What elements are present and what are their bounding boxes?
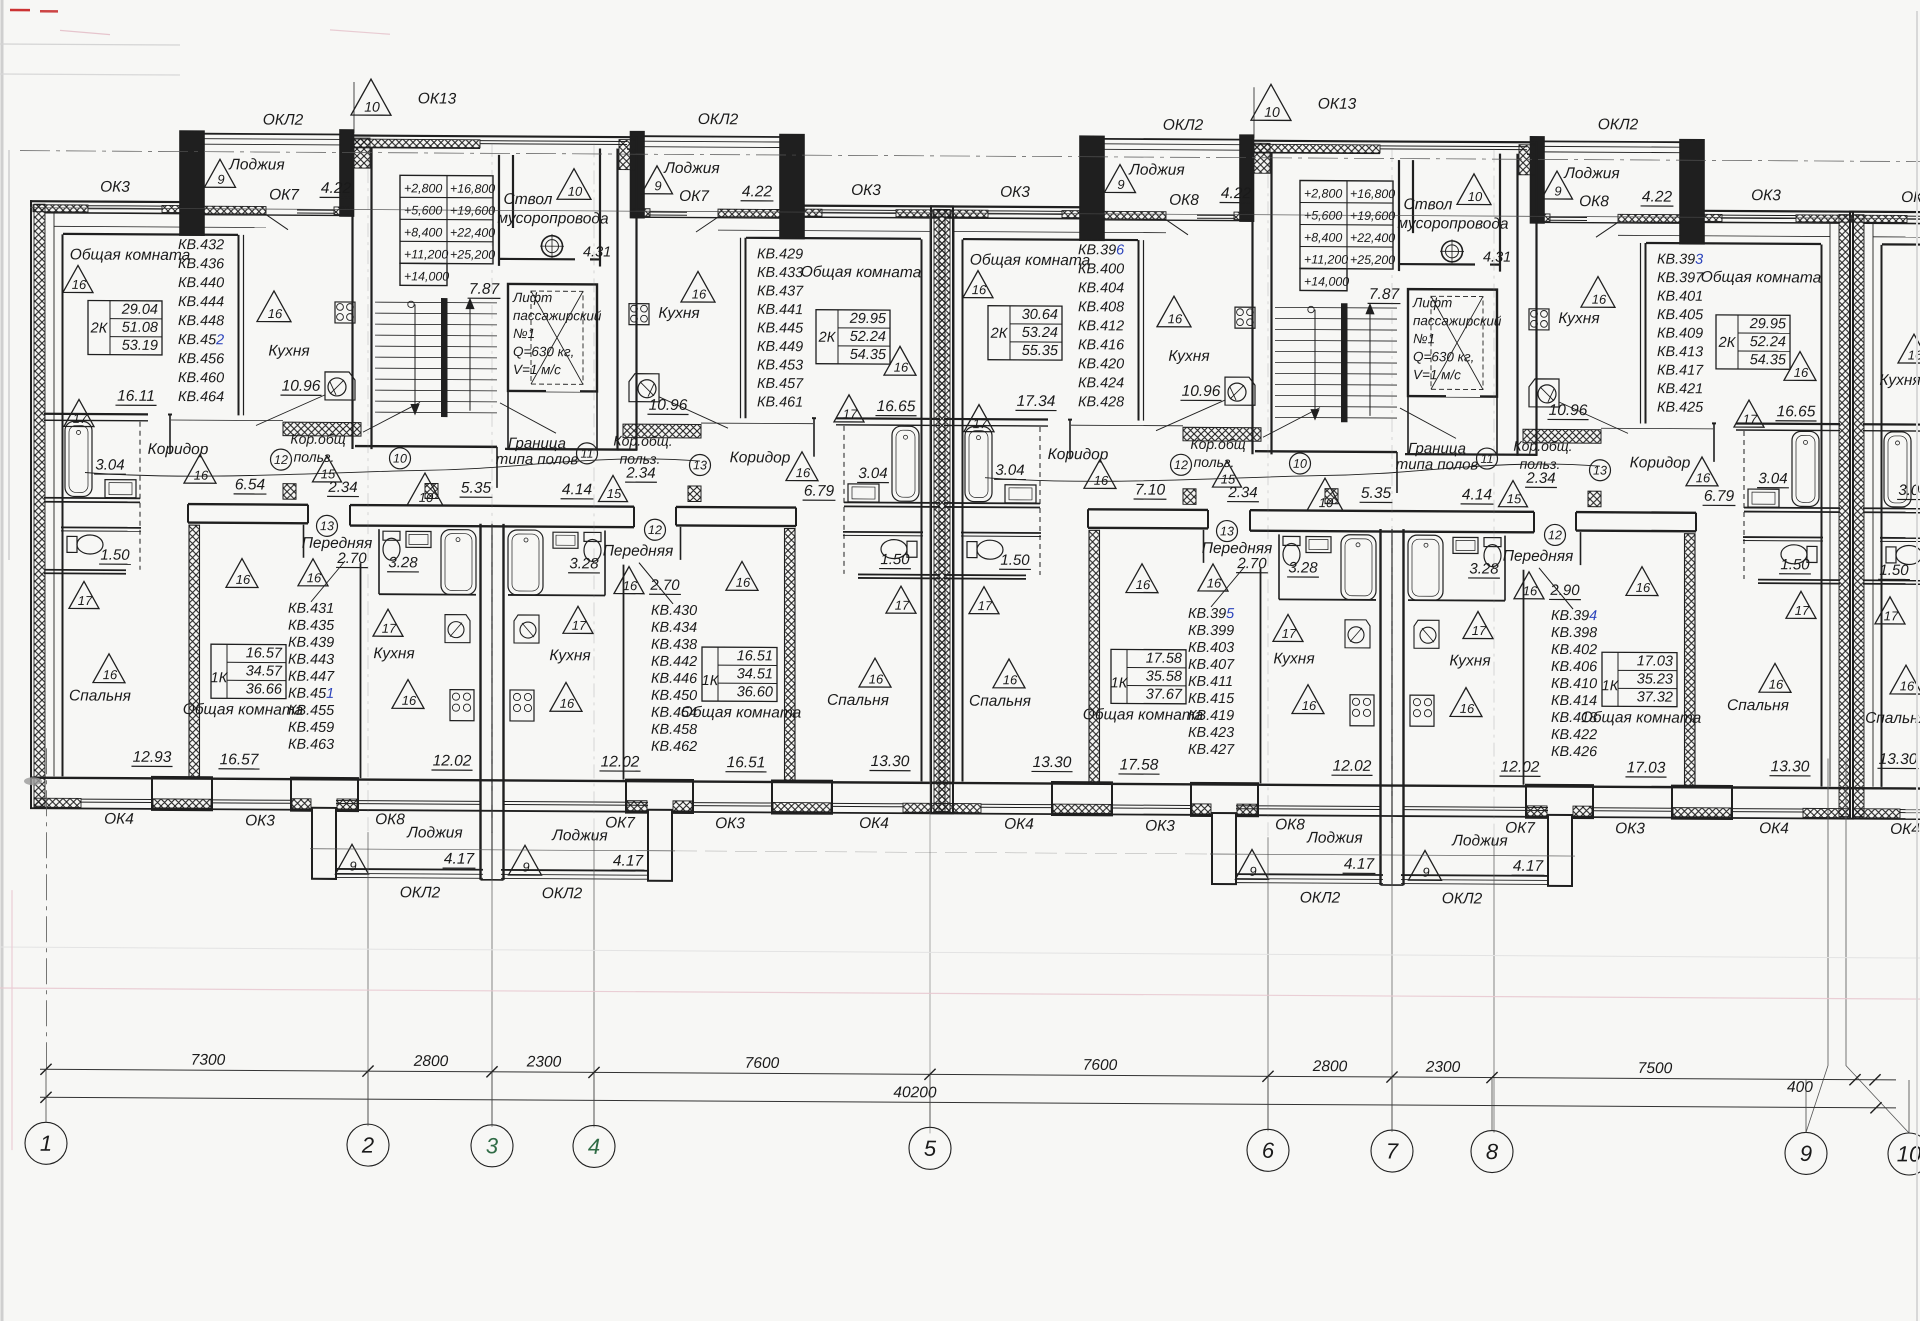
svg-text:6.79: 6.79 — [804, 483, 835, 500]
svg-text:КВ.402: КВ.402 — [1551, 642, 1597, 658]
svg-text:2.34: 2.34 — [625, 465, 655, 482]
svg-text:Спальня: Спальня — [969, 693, 1031, 710]
building structure: wing 2 — [930, 133, 1854, 887]
svg-text:КВ.446: КВ.446 — [651, 671, 697, 687]
svg-text:+19,600: +19,600 — [450, 204, 495, 218]
svg-text:КВ.425: КВ.425 — [1657, 400, 1704, 416]
svg-text:37.32: 37.32 — [1637, 689, 1673, 705]
svg-text:5.35: 5.35 — [461, 480, 492, 497]
svg-text:КВ.457: КВ.457 — [757, 376, 804, 392]
svg-text:Ствол: Ствол — [1404, 196, 1453, 213]
svg-text:40200: 40200 — [893, 1084, 936, 1101]
svg-text:16: 16 — [1636, 580, 1651, 595]
svg-text:17: 17 — [572, 618, 587, 633]
svg-text:16: 16 — [1696, 470, 1711, 485]
svg-text:3.28: 3.28 — [1288, 559, 1318, 576]
svg-text:3.28: 3.28 — [1469, 560, 1499, 577]
svg-text:Кухня: Кухня — [268, 343, 309, 360]
svg-text:16: 16 — [623, 578, 638, 593]
svg-text:10: 10 — [364, 99, 380, 115]
svg-text:12.02: 12.02 — [601, 753, 640, 770]
svg-text:35.58: 35.58 — [1146, 669, 1182, 685]
svg-text:15: 15 — [1507, 491, 1522, 506]
svg-text:16: 16 — [1592, 292, 1607, 307]
svg-text:Общая комната: Общая комната — [1083, 706, 1204, 724]
svg-text:КВ.449: КВ.449 — [757, 339, 803, 355]
svg-text:Передняя: Передняя — [1503, 548, 1574, 565]
svg-text:16: 16 — [307, 570, 322, 585]
svg-text:17: 17 — [973, 416, 988, 431]
svg-text:7600: 7600 — [745, 1055, 780, 1072]
svg-text:4.22: 4.22 — [1221, 185, 1252, 202]
svg-text:30.64: 30.64 — [1022, 307, 1058, 323]
svg-text:КВ.448: КВ.448 — [178, 313, 224, 329]
svg-text:+14,000: +14,000 — [1304, 275, 1349, 289]
svg-text:1К: 1К — [702, 673, 720, 689]
svg-text:КВ.411: КВ.411 — [1188, 674, 1233, 690]
svg-text:4.31: 4.31 — [1483, 250, 1511, 266]
svg-text:№1: №1 — [1413, 331, 1435, 346]
svg-text:2300: 2300 — [1425, 1059, 1461, 1076]
svg-text:3.04: 3.04 — [95, 457, 124, 474]
svg-text:Общая комната: Общая комната — [681, 704, 802, 722]
svg-text:36.60: 36.60 — [737, 684, 773, 700]
dimension lines and grid axes — [30, 208, 1920, 219]
svg-text:29.95: 29.95 — [849, 311, 887, 327]
svg-text:Лоджия: Лоджия — [406, 824, 462, 841]
svg-text:2.70: 2.70 — [1236, 555, 1267, 572]
svg-text:17: 17 — [895, 598, 910, 613]
svg-text:+2,800: +2,800 — [1304, 187, 1342, 201]
svg-text:16: 16 — [1302, 698, 1317, 713]
svg-text:16: 16 — [972, 282, 987, 297]
svg-text:17: 17 — [1795, 603, 1810, 618]
svg-text:пассажирский: пассажирский — [1413, 313, 1502, 329]
svg-text:1К: 1К — [211, 670, 229, 686]
svg-text:КВ.461: КВ.461 — [757, 394, 803, 410]
svg-text:Лоджия: Лоджия — [1306, 830, 1362, 847]
svg-text:2800: 2800 — [413, 1053, 449, 1070]
svg-text:ОКЛ2: ОКЛ2 — [1442, 890, 1483, 907]
svg-text:КВ.427: КВ.427 — [1188, 742, 1235, 758]
svg-text:КВ.442: КВ.442 — [651, 654, 697, 670]
svg-text:Лифт: Лифт — [512, 290, 552, 305]
svg-text:2К: 2К — [818, 330, 837, 346]
svg-text:6: 6 — [1262, 1138, 1275, 1163]
svg-text:11: 11 — [1481, 452, 1494, 466]
svg-text:4.22: 4.22 — [1642, 188, 1673, 205]
svg-text:КВ.421: КВ.421 — [1657, 381, 1703, 397]
svg-text:1К: 1К — [1602, 678, 1620, 694]
svg-text:Лоджия: Лоджия — [228, 156, 284, 173]
svg-text:+19,600: +19,600 — [1350, 209, 1395, 223]
svg-text:13.30: 13.30 — [1879, 751, 1918, 768]
svg-text:Кухня: Кухня — [1558, 310, 1599, 327]
svg-text:ОК3: ОК3 — [1615, 820, 1645, 837]
svg-text:16: 16 — [1168, 311, 1183, 326]
svg-text:15: 15 — [607, 486, 622, 501]
svg-text:2300: 2300 — [526, 1054, 562, 1071]
svg-text:16: 16 — [869, 672, 884, 687]
svg-text:17.03: 17.03 — [1627, 759, 1666, 776]
svg-text:КВ.416: КВ.416 — [1078, 337, 1124, 353]
svg-text:+16,800: +16,800 — [1350, 187, 1395, 201]
svg-text:3: 3 — [486, 1133, 499, 1158]
svg-text:ОК7: ОК7 — [1505, 820, 1536, 837]
svg-text:типа полов: типа полов — [496, 451, 579, 468]
svg-text:4.17: 4.17 — [1344, 856, 1376, 873]
svg-text:10.96: 10.96 — [282, 378, 321, 395]
svg-text:ОК7: ОК7 — [679, 188, 710, 205]
svg-text:пассажирский: пассажирский — [513, 308, 602, 324]
svg-text:ОК8: ОК8 — [1579, 193, 1609, 210]
svg-text:КВ.429: КВ.429 — [757, 246, 803, 262]
svg-text:9: 9 — [217, 172, 224, 187]
svg-text:16: 16 — [1003, 672, 1018, 687]
svg-text:17: 17 — [1472, 623, 1487, 638]
svg-text:КВ.398: КВ.398 — [1551, 625, 1597, 641]
svg-text:КВ.426: КВ.426 — [1551, 744, 1597, 760]
svg-text:16: 16 — [1908, 347, 1920, 362]
svg-text:1: 1 — [40, 1131, 52, 1156]
svg-text:КВ.417: КВ.417 — [1657, 363, 1704, 379]
svg-text:ОК3: ОК3 — [245, 812, 275, 829]
svg-text:Кухня: Кухня — [1449, 652, 1490, 669]
svg-text:16: 16 — [796, 465, 811, 480]
svg-text:17.03: 17.03 — [1637, 653, 1673, 669]
svg-text:9: 9 — [1117, 177, 1124, 192]
svg-text:4.17: 4.17 — [613, 853, 645, 870]
svg-text:13.30: 13.30 — [871, 753, 910, 770]
svg-text:53.19: 53.19 — [122, 338, 158, 354]
svg-text:1.50: 1.50 — [880, 551, 910, 568]
svg-text:ОК13: ОК13 — [1318, 96, 1357, 113]
svg-text:КВ.413: КВ.413 — [1657, 344, 1703, 360]
svg-text:10: 10 — [1293, 457, 1307, 471]
svg-text:12.02: 12.02 — [1333, 758, 1372, 775]
svg-text:КВ.443: КВ.443 — [288, 652, 334, 668]
svg-text:ОКЛ2: ОКЛ2 — [1598, 116, 1639, 133]
svg-text:КВ.434: КВ.434 — [651, 620, 697, 636]
svg-text:13: 13 — [320, 519, 334, 533]
svg-text:+2,800: +2,800 — [404, 181, 442, 195]
svg-text:Лоджия: Лоджия — [551, 827, 607, 844]
svg-text:КВ.459: КВ.459 — [288, 720, 334, 736]
svg-text:КВ.406: КВ.406 — [1551, 659, 1597, 675]
svg-text:Общая комната: Общая комната — [970, 252, 1091, 270]
svg-text:+8,400: +8,400 — [404, 225, 442, 239]
svg-text:10.96: 10.96 — [1549, 402, 1588, 419]
svg-text:ОК3: ОК3 — [1000, 184, 1030, 201]
svg-text:17: 17 — [1884, 608, 1899, 623]
svg-text:7.87: 7.87 — [469, 281, 501, 298]
svg-text:Спальня: Спальня — [1727, 697, 1789, 714]
svg-text:16: 16 — [894, 360, 909, 375]
svg-text:ОК8: ОК8 — [375, 811, 405, 828]
svg-text:+25,200: +25,200 — [1350, 253, 1395, 267]
svg-text:ОК4: ОК4 — [1759, 820, 1789, 837]
svg-text:ОК4: ОК4 — [859, 815, 889, 832]
svg-text:12: 12 — [1548, 528, 1562, 542]
svg-text:29.95: 29.95 — [1749, 316, 1787, 332]
svg-text:Кухня: Кухня — [1273, 650, 1314, 667]
svg-text:ОКЛ2: ОКЛ2 — [698, 111, 739, 128]
svg-text:ОК13: ОК13 — [418, 90, 457, 107]
svg-text:V=1 м/с: V=1 м/с — [1413, 367, 1461, 382]
svg-text:4.17: 4.17 — [1513, 858, 1545, 875]
svg-text:КВ.445: КВ.445 — [757, 320, 804, 336]
svg-text:16: 16 — [1794, 365, 1809, 380]
svg-text:V=1 м/с: V=1 м/с — [513, 362, 561, 377]
svg-text:10: 10 — [419, 490, 434, 505]
svg-text:52.24: 52.24 — [1750, 334, 1786, 350]
svg-text:КВ.462: КВ.462 — [651, 739, 697, 755]
svg-text:мусоропровода: мусоропровода — [1397, 215, 1509, 233]
svg-text:11: 11 — [581, 447, 594, 461]
svg-text:КВ.404: КВ.404 — [1078, 280, 1124, 296]
svg-text:4.14: 4.14 — [562, 481, 593, 498]
svg-text:КВ.409: КВ.409 — [1657, 326, 1703, 342]
svg-text:КВ.394: КВ.394 — [1551, 608, 1597, 624]
svg-text:ОК4: ОК4 — [1004, 816, 1034, 833]
svg-text:4.14: 4.14 — [1462, 486, 1493, 503]
svg-text:12: 12 — [274, 453, 288, 467]
svg-text:2.70: 2.70 — [336, 550, 367, 567]
svg-text:16.51: 16.51 — [727, 754, 766, 771]
svg-text:+5,600: +5,600 — [1304, 209, 1342, 223]
svg-text:КВ.412: КВ.412 — [1078, 318, 1124, 334]
svg-text:КВ.395: КВ.395 — [1188, 606, 1235, 622]
svg-text:3.04: 3.04 — [1758, 470, 1787, 487]
svg-text:6.79: 6.79 — [1704, 488, 1735, 505]
svg-text:КВ.420: КВ.420 — [1078, 356, 1124, 372]
svg-text:+25,200: +25,200 — [450, 248, 495, 262]
svg-text:17: 17 — [78, 593, 93, 608]
partial wing 3 at right edge — [1849, 139, 1920, 891]
svg-text:16: 16 — [1769, 677, 1784, 692]
svg-text:53.24: 53.24 — [1022, 325, 1058, 341]
svg-text:КВ.433: КВ.433 — [757, 265, 803, 281]
svg-text:КВ.401: КВ.401 — [1657, 289, 1703, 305]
svg-text:ОК4: ОК4 — [104, 811, 134, 828]
svg-text:Кор.общ.: Кор.общ. — [613, 433, 672, 449]
svg-text:400: 400 — [1787, 1079, 1813, 1096]
svg-text:Кухня: Кухня — [549, 647, 590, 664]
svg-text:Кор.общ: Кор.общ — [1190, 436, 1245, 452]
svg-text:4.17: 4.17 — [444, 851, 476, 868]
svg-text:КВ.456: КВ.456 — [178, 351, 224, 367]
svg-text:КВ.422: КВ.422 — [1551, 727, 1597, 743]
svg-text:КВ.414: КВ.414 — [1551, 693, 1597, 709]
svg-text:Спальня: Спальня — [69, 687, 131, 704]
svg-text:КВ.399: КВ.399 — [1188, 623, 1234, 639]
svg-text:ОКЛ2: ОКЛ2 — [263, 112, 304, 129]
svg-text:Граница: Граница — [1408, 440, 1466, 457]
svg-text:16: 16 — [736, 575, 751, 590]
svg-text:Передняя: Передняя — [603, 542, 674, 559]
svg-text:1.50: 1.50 — [1000, 552, 1030, 569]
svg-text:1К: 1К — [1111, 675, 1129, 691]
svg-text:17: 17 — [843, 406, 858, 421]
svg-text:2К: 2К — [90, 321, 109, 337]
svg-text:17.58: 17.58 — [1146, 651, 1182, 667]
svg-text:КВ.441: КВ.441 — [757, 302, 803, 318]
svg-text:Кор.общ.: Кор.общ. — [1513, 438, 1572, 454]
svg-text:Коридор: Коридор — [730, 449, 791, 466]
svg-text:7500: 7500 — [1638, 1060, 1673, 1077]
svg-text:КВ.430: КВ.430 — [651, 603, 697, 619]
svg-text:12: 12 — [1174, 458, 1188, 472]
svg-text:КВ.424: КВ.424 — [1078, 375, 1124, 391]
svg-text:+22,400: +22,400 — [450, 226, 495, 240]
svg-text:2.70: 2.70 — [649, 577, 680, 594]
svg-text:КВ.431: КВ.431 — [288, 601, 334, 617]
svg-text:КВ.450: КВ.450 — [651, 688, 697, 704]
svg-text:Лоджия: Лоджия — [1451, 832, 1507, 849]
svg-text:16: 16 — [103, 667, 118, 682]
svg-text:1.50: 1.50 — [1879, 562, 1909, 579]
svg-text:ОК7: ОК7 — [269, 187, 300, 204]
svg-text:Q=630 кг,: Q=630 кг, — [513, 344, 574, 359]
svg-text:16.65: 16.65 — [877, 398, 916, 415]
svg-text:1.50: 1.50 — [1780, 556, 1810, 573]
svg-text:Кухня: Кухня — [1879, 372, 1920, 389]
building structure: wing 1 — [30, 128, 954, 882]
svg-text:35.23: 35.23 — [1637, 671, 1673, 687]
svg-text:51.08: 51.08 — [122, 320, 158, 336]
svg-text:+11,200: +11,200 — [404, 247, 448, 261]
svg-text:+16,800: +16,800 — [450, 182, 495, 196]
svg-text:9: 9 — [1800, 1141, 1812, 1166]
svg-text:2.34: 2.34 — [1227, 484, 1257, 501]
svg-text:Лоджия: Лоджия — [663, 160, 719, 177]
svg-text:16: 16 — [1460, 701, 1475, 716]
svg-text:9: 9 — [1554, 183, 1561, 198]
svg-text:4: 4 — [588, 1134, 600, 1159]
svg-text:34.57: 34.57 — [246, 663, 283, 679]
svg-text:4.22: 4.22 — [742, 183, 773, 200]
svg-text:КВ.403: КВ.403 — [1188, 640, 1234, 656]
svg-text:55.35: 55.35 — [1022, 343, 1059, 359]
wing 2 texts — [963, 83, 1822, 910]
svg-text:КВ.444: КВ.444 — [178, 294, 224, 310]
svg-text:ОК3: ОК3 — [100, 179, 130, 196]
svg-text:ОК3: ОК3 — [1145, 818, 1175, 835]
svg-text:16: 16 — [72, 277, 87, 292]
svg-text:10.96: 10.96 — [649, 397, 688, 414]
svg-text:Спальня: Спальня — [1865, 710, 1920, 727]
svg-text:16: 16 — [1523, 583, 1538, 598]
svg-text:9: 9 — [654, 178, 661, 193]
svg-text:13: 13 — [1220, 524, 1234, 538]
svg-text:2К: 2К — [990, 326, 1009, 342]
svg-text:10: 10 — [1468, 189, 1483, 204]
svg-text:КВ.451: КВ.451 — [288, 686, 334, 702]
svg-text:9: 9 — [1422, 865, 1429, 880]
svg-text:7.10: 7.10 — [1135, 482, 1166, 499]
svg-text:Общая комната: Общая комната — [183, 701, 304, 719]
svg-text:Общая комната: Общая комната — [801, 264, 922, 282]
svg-text:Спальня: Спальня — [827, 692, 889, 709]
svg-text:17: 17 — [382, 621, 397, 636]
svg-text:16.57: 16.57 — [246, 645, 283, 661]
svg-text:1.50: 1.50 — [100, 547, 130, 564]
svg-text:Коридор: Коридор — [1630, 454, 1691, 471]
svg-text:Кухня: Кухня — [1168, 348, 1209, 365]
svg-text:ОК8: ОК8 — [1275, 816, 1305, 833]
svg-text:типа полов: типа полов — [1396, 456, 1479, 473]
svg-text:ОК4: ОК4 — [1890, 821, 1920, 838]
svg-text:12: 12 — [648, 523, 662, 537]
svg-text:КВ.463: КВ.463 — [288, 737, 334, 753]
svg-text:3.28: 3.28 — [388, 554, 418, 571]
svg-text:3.28: 3.28 — [569, 555, 599, 572]
svg-text:17.58: 17.58 — [1120, 756, 1159, 773]
svg-text:10: 10 — [568, 184, 583, 199]
svg-text:17: 17 — [73, 411, 88, 426]
svg-text:16: 16 — [268, 306, 283, 321]
svg-text:16: 16 — [1207, 575, 1222, 590]
svg-text:КВ.393: КВ.393 — [1657, 252, 1703, 268]
svg-text:КВ.410: КВ.410 — [1551, 676, 1597, 692]
svg-text:КВ.439: КВ.439 — [288, 635, 334, 651]
svg-text:52.24: 52.24 — [850, 329, 886, 345]
svg-text:16: 16 — [692, 286, 707, 301]
svg-text:9: 9 — [522, 860, 529, 875]
svg-text:8: 8 — [1486, 1139, 1499, 1164]
svg-text:34.51: 34.51 — [737, 666, 773, 682]
svg-text:КВ.437: КВ.437 — [757, 283, 804, 299]
svg-text:Лифт: Лифт — [1412, 295, 1452, 310]
svg-text:10: 10 — [1264, 104, 1280, 120]
svg-text:9: 9 — [349, 859, 356, 874]
svg-text:КВ.423: КВ.423 — [1188, 725, 1234, 741]
svg-text:4.31: 4.31 — [583, 244, 611, 260]
svg-text:КВ.397: КВ.397 — [1657, 270, 1704, 286]
svg-text:13.30: 13.30 — [1771, 758, 1810, 775]
svg-text:2К: 2К — [1718, 335, 1737, 351]
svg-text:ОКЛ2: ОКЛ2 — [1300, 889, 1341, 906]
svg-text:7: 7 — [1386, 1138, 1399, 1163]
svg-text:9: 9 — [1249, 864, 1256, 879]
svg-text:ОКЛ2: ОКЛ2 — [1163, 117, 1204, 134]
svg-text:16: 16 — [560, 696, 575, 711]
svg-text:ОК3: ОК3 — [1751, 187, 1781, 204]
svg-text:3.04: 3.04 — [995, 462, 1024, 479]
svg-text:ОКЛ2: ОКЛ2 — [400, 884, 441, 901]
svg-text:54.35: 54.35 — [850, 347, 887, 363]
svg-text:КВ.415: КВ.415 — [1188, 691, 1235, 707]
svg-text:7600: 7600 — [1083, 1057, 1118, 1074]
svg-text:10.96: 10.96 — [1182, 383, 1221, 400]
svg-text:ОК7: ОК7 — [605, 814, 636, 831]
svg-text:4.22: 4.22 — [321, 180, 352, 197]
svg-text:ОК3: ОК3 — [851, 182, 881, 199]
svg-text:Лоджия: Лоджия — [1563, 165, 1619, 182]
svg-text:17: 17 — [978, 598, 993, 613]
svg-text:17: 17 — [1743, 412, 1758, 427]
svg-text:КВ.428: КВ.428 — [1078, 394, 1124, 410]
svg-text:2.90: 2.90 — [1549, 582, 1580, 599]
svg-text:КВ.438: КВ.438 — [651, 637, 697, 653]
svg-text:16: 16 — [194, 468, 209, 483]
svg-text:ОК8: ОК8 — [1169, 192, 1199, 209]
svg-text:7.87: 7.87 — [1369, 286, 1401, 303]
svg-text:5.35: 5.35 — [1361, 485, 1392, 502]
svg-text:Лоджия: Лоджия — [1128, 161, 1184, 178]
svg-text:13: 13 — [1593, 463, 1607, 477]
svg-text:+22,400: +22,400 — [1350, 231, 1395, 245]
